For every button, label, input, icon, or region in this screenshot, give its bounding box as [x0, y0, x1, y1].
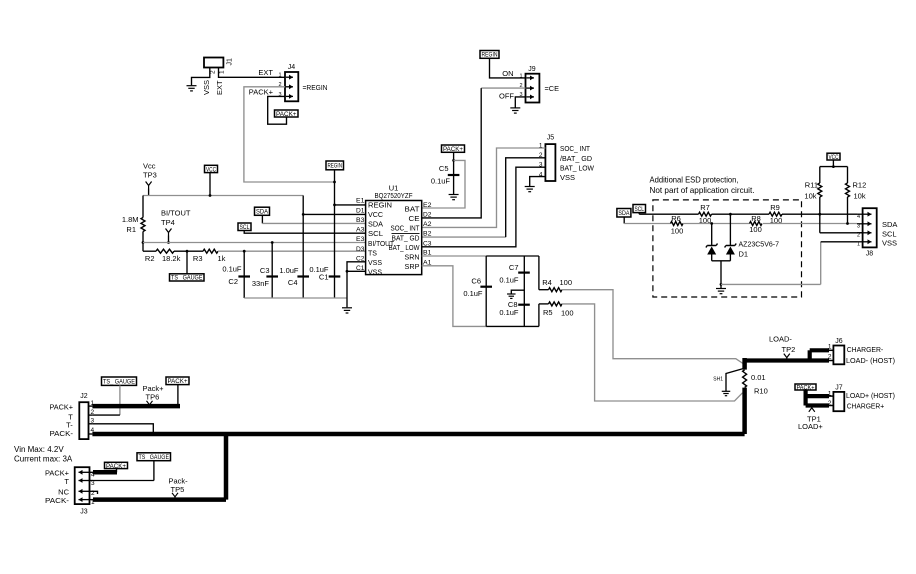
label LOAD- (HOST) at J6: [846, 356, 895, 365]
wire REGIN stem to E1 and C1: [333, 170, 336, 298]
svg-text:SOC_ INT: SOC_ INT: [391, 224, 420, 233]
wire J2 pin1 thick: [92, 404, 180, 409]
svg-text:OFF: OFF: [499, 92, 514, 101]
label PACK- at J3: [45, 496, 70, 505]
svg-text:18.2k: 18.2k: [162, 254, 181, 263]
resistor R1: [122, 196, 145, 252]
svg-text:A2: A2: [423, 221, 432, 228]
svg-text:100: 100: [560, 278, 573, 287]
svg-text:0.01: 0.01: [751, 373, 766, 382]
svg-text:1.0uF: 1.0uF: [279, 266, 299, 275]
resistor R3: [193, 249, 226, 263]
svg-text:VSS: VSS: [882, 238, 897, 247]
svg-text:PACK+: PACK+: [249, 87, 274, 96]
net label TS_GAUGE at J3: [137, 453, 171, 461]
resistor R12: [846, 167, 867, 224]
net label REGIN at J9: [480, 51, 499, 59]
svg-text:1.8M: 1.8M: [122, 215, 139, 224]
svg-text:A3: A3: [356, 226, 365, 233]
svg-text:D1: D1: [356, 207, 365, 214]
wire PACK+ to C5: [452, 152, 455, 194]
wire VCC rail: [143, 195, 303, 197]
resistor R5: [539, 302, 574, 317]
svg-text:LOAD+: LOAD+: [798, 422, 823, 431]
svg-text:0.1uF: 0.1uF: [499, 308, 519, 317]
wire LOAD- thick: [745, 350, 834, 360]
wire J5 pin2 BAT_GD: [422, 158, 546, 237]
wire VSS to J8 pin1: [721, 242, 857, 285]
svg-text:2: 2: [857, 233, 860, 239]
ground at C7/C8: [507, 294, 516, 298]
svg-text:SCL: SCL: [635, 206, 645, 213]
svg-text:BI/TOUT: BI/TOUT: [161, 209, 191, 218]
label CHARGER- at J6: [847, 345, 884, 354]
resistor R6: [671, 214, 684, 235]
svg-text:0.1uF: 0.1uF: [431, 177, 451, 186]
svg-text:C6: C6: [471, 276, 481, 285]
wire TS_GAUGE stem at J3: [153, 461, 155, 481]
svg-text:LOAD- (HOST): LOAD- (HOST): [846, 356, 895, 365]
wire R11 to J8 pin2: [820, 232, 863, 234]
diode D1b (zener): [725, 214, 737, 261]
resistor R11: [804, 167, 821, 233]
svg-text:TP3: TP3: [143, 171, 157, 180]
svg-text:1: 1: [278, 73, 281, 79]
op-amp U1 BQ27520YZF fuel gauge: [356, 183, 432, 276]
svg-text:PACK-: PACK-: [45, 496, 70, 505]
svg-text:1: 1: [857, 242, 860, 248]
net label REGIN near U1: [326, 161, 344, 170]
wire J3 pin2 stub: [93, 491, 98, 494]
svg-text:EXT: EXT: [258, 68, 273, 77]
svg-text:VSS: VSS: [202, 80, 211, 95]
svg-text:SCL: SCL: [368, 229, 383, 238]
svg-text:VCC: VCC: [206, 166, 216, 173]
svg-text:C1: C1: [319, 273, 329, 282]
svg-text:PACK+: PACK+: [168, 378, 188, 385]
wire J2 pin4 thick PACK-: [92, 432, 744, 437]
wire TP3 to VCC rail: [148, 189, 150, 196]
svg-text:1: 1: [828, 390, 832, 397]
label PACK+ at J3: [45, 468, 70, 477]
label CHARGER+ at J7: [847, 401, 885, 410]
label SCL at J8: [882, 229, 897, 238]
svg-text:D2: D2: [423, 211, 432, 218]
wire J2 pin2: [92, 414, 120, 416]
svg-text:J3: J3: [80, 509, 88, 516]
capacitor C4: [279, 266, 309, 287]
svg-text:LOAD+ (HOST): LOAD+ (HOST): [846, 391, 895, 400]
svg-text:C3: C3: [423, 240, 432, 247]
ground at J9: [510, 108, 520, 113]
svg-text:/BAT_ GD: /BAT_ GD: [560, 154, 593, 163]
capacitor C6: [463, 276, 492, 298]
svg-text:TP4: TP4: [161, 218, 175, 227]
wire PACK+ stem at J3: [116, 469, 118, 473]
ground at C5: [449, 195, 459, 200]
svg-text:100: 100: [749, 225, 762, 234]
svg-text:Pack-: Pack-: [169, 476, 189, 485]
label VSS (rotated): [202, 80, 211, 95]
wire J7 thick wires: [806, 390, 834, 406]
svg-text:SCL: SCL: [882, 229, 897, 238]
svg-text:R4: R4: [542, 278, 552, 287]
resistor R9: [769, 203, 782, 225]
label BAT_LOW at J5: [560, 164, 595, 173]
svg-text:C7: C7: [509, 263, 519, 272]
label EXT (rotated): [215, 80, 224, 95]
svg-text:REGIN: REGIN: [368, 201, 392, 210]
wire VCC rail at J8: [820, 166, 848, 168]
net label SDA at ESD: [617, 209, 631, 218]
net label PACK+ below J4: [275, 110, 299, 118]
wire J1 pin2 to ground: [192, 68, 210, 86]
ground below U1: [342, 298, 352, 313]
connector J8: [857, 208, 877, 257]
wire bottom VSS rail: [244, 297, 347, 299]
wire filter box top: [486, 255, 539, 257]
svg-text:SDA: SDA: [882, 220, 897, 229]
wire SCL stem at ESD: [638, 213, 640, 215]
wire SDA stem at ESD: [623, 217, 625, 224]
label =CE: [545, 84, 560, 93]
wire PACK+ stem at J2: [177, 385, 179, 407]
net label TS_GAUGE at J2: [102, 377, 137, 385]
svg-text:E1: E1: [356, 198, 365, 205]
svg-text:VCC: VCC: [368, 210, 383, 219]
wire VCC label stem: [209, 173, 212, 197]
svg-text:0.1uF: 0.1uF: [499, 275, 519, 284]
svg-text:J4: J4: [288, 64, 296, 71]
net label VCC at J8: [827, 153, 840, 161]
label VSS at J5: [560, 173, 575, 182]
label /BAT_GD at J5: [560, 154, 593, 163]
wire TP4 stem: [167, 236, 170, 244]
svg-text:TP6: TP6: [146, 393, 160, 402]
wire BI/TOUT rail: [143, 242, 366, 244]
wire SCL mid: [712, 213, 770, 216]
svg-text:E3: E3: [356, 236, 365, 243]
label D1 AZ23C5V6-7: [739, 239, 780, 258]
wire J9 pin2 CE: [422, 88, 526, 218]
label OFF: [499, 92, 514, 101]
wire D1 stub: [303, 213, 365, 215]
svg-text:PACK+: PACK+: [50, 403, 74, 412]
wire J3 pin4 thick: [93, 470, 117, 475]
svg-text:33nF: 33nF: [252, 279, 270, 288]
svg-text:2: 2: [210, 70, 217, 74]
wire filter box right: [538, 256, 540, 326]
wire PACK- vertical thick: [224, 434, 229, 500]
svg-text:REGIN: REGIN: [328, 163, 343, 170]
svg-text:BAT_ LOW: BAT_ LOW: [560, 164, 595, 173]
resistor R10 shunt: [743, 358, 768, 434]
wire R4 to shunt top: [562, 290, 743, 364]
svg-text:VSS: VSS: [560, 173, 575, 182]
svg-text:PACK+: PACK+: [276, 111, 297, 118]
wire REGIN to J9 pin1: [490, 58, 526, 78]
svg-text:BAT: BAT: [405, 205, 421, 214]
svg-text:Vcc: Vcc: [143, 162, 156, 171]
net label SCL near U1: [238, 223, 251, 231]
svg-text:VSS: VSS: [368, 268, 382, 277]
svg-text:100: 100: [561, 308, 574, 317]
wire SCL to J8 pin4: [782, 213, 857, 216]
wire TS_GAUGE stem: [186, 251, 188, 274]
wire C7C8 stem: [523, 256, 525, 326]
wire SDA line left: [624, 223, 670, 225]
resistor R8: [749, 214, 762, 234]
svg-text:1: 1: [519, 73, 522, 79]
svg-text:SRP: SRP: [405, 262, 420, 271]
svg-text:Vin Max: 4.2V: Vin Max: 4.2V: [14, 445, 64, 454]
svg-text:R6: R6: [671, 214, 681, 223]
note Vin Max: [14, 445, 73, 464]
svg-text:SDA: SDA: [618, 210, 630, 217]
ground at J5: [525, 187, 535, 192]
svg-text:Additional ESD protection,: Additional ESD protection,: [650, 175, 739, 185]
resistor R4: [539, 278, 572, 292]
svg-text:0.1uF: 0.1uF: [222, 264, 242, 273]
wire J1 pin1 to J4 pin1 (EXT): [219, 68, 286, 78]
connector J5: [539, 135, 556, 182]
wire J5 pin3 BAT_LOW: [422, 167, 546, 247]
capacitor C1: [309, 265, 340, 282]
capacitor C8: [499, 300, 529, 317]
svg-text:SOC_ INT: SOC_ INT: [560, 144, 590, 153]
label SH1: [713, 376, 723, 382]
svg-text:R1: R1: [126, 225, 136, 234]
wire J2 pin3: [92, 424, 153, 432]
net label TS_GAUGE: [170, 274, 205, 282]
resistor R2: [143, 249, 181, 263]
wire R2 to R3: [174, 250, 203, 253]
svg-text:1k: 1k: [218, 254, 226, 263]
net label PACK+ at J7: [795, 384, 816, 391]
connector J2: [79, 393, 94, 439]
ground at D1: [716, 289, 726, 294]
svg-text:=CE: =CE: [545, 84, 560, 93]
svg-text:1: 1: [828, 344, 832, 351]
svg-text:2: 2: [828, 353, 832, 360]
svg-text:SDA: SDA: [256, 209, 269, 216]
svg-text:T: T: [64, 477, 69, 486]
svg-text:TS: TS: [368, 249, 377, 258]
label LOAD+ (HOST) at J7: [846, 391, 895, 400]
svg-text:SRN: SRN: [405, 252, 420, 261]
wire filter box bottom: [486, 325, 539, 327]
wire C2 stem: [243, 250, 246, 298]
svg-text:10k: 10k: [854, 192, 866, 201]
wire J5 pin1 SOC_INT: [422, 148, 546, 227]
svg-text:4: 4: [857, 214, 860, 220]
svg-text:R7: R7: [700, 203, 710, 212]
wire SCL line left: [639, 213, 698, 215]
svg-text:J7: J7: [835, 385, 843, 392]
net label SDA near U1: [255, 207, 270, 215]
svg-text:BAT_ GD: BAT_ GD: [392, 233, 420, 242]
label VSS at J8: [882, 238, 897, 247]
svg-text:C1: C1: [356, 265, 365, 272]
label =REGIN at J4: [303, 83, 328, 92]
net label PACK+ at J3: [105, 462, 128, 469]
wire TS rail: [218, 250, 366, 252]
wire SRN: [422, 255, 487, 257]
label T- at J2: [66, 421, 73, 430]
connector J3: [75, 467, 95, 515]
wire J3 pin3: [93, 480, 154, 482]
svg-text:C2: C2: [228, 277, 238, 286]
connector J4: [278, 64, 298, 102]
svg-text:B3: B3: [356, 217, 365, 224]
svg-text:1: 1: [219, 70, 226, 74]
label SDA at J8: [882, 220, 897, 229]
wire filter box left: [485, 256, 487, 326]
svg-text:Current max: 3A: Current max: 3A: [14, 455, 73, 464]
svg-text:REGIN: REGIN: [482, 52, 498, 59]
wire SDA to U1: [262, 215, 365, 223]
svg-text:BAT_ LOW: BAT_ LOW: [389, 243, 420, 252]
svg-text:0.1uF: 0.1uF: [463, 289, 483, 298]
svg-text:TS_ GAUGE: TS_ GAUGE: [103, 379, 135, 385]
svg-text:SDA: SDA: [368, 220, 383, 229]
label T at J3: [64, 477, 69, 486]
testpoint TP6: [143, 384, 165, 408]
wire BAT to PACK+ node: [422, 160, 465, 208]
capacitor C7: [499, 263, 529, 284]
svg-text:D1: D1: [739, 250, 749, 259]
svg-text:LOAD-: LOAD-: [769, 335, 792, 344]
label ON: [502, 69, 513, 78]
svg-text:=REGIN: =REGIN: [303, 83, 328, 92]
testpoint TP1: [798, 405, 823, 431]
wire VCC vertical: [302, 196, 305, 299]
svg-text:J2: J2: [80, 393, 88, 400]
label LOAD- TP2: [769, 335, 795, 361]
testpoint TP3: [143, 162, 157, 189]
svg-text:D3: D3: [356, 246, 365, 253]
svg-text:PACK-: PACK-: [50, 429, 74, 438]
svg-text:100: 100: [671, 226, 684, 235]
ground at J1: [187, 86, 197, 91]
wire C3 stem: [271, 241, 274, 298]
wire diode common: [712, 261, 731, 288]
testpoint TP4: [161, 209, 191, 236]
diode D1a (zener): [706, 224, 718, 261]
net label VCC: [205, 165, 218, 173]
svg-text:C4: C4: [288, 278, 298, 287]
note ESD text: [650, 175, 755, 196]
svg-text:10k: 10k: [804, 192, 816, 201]
svg-text:J1: J1: [227, 58, 234, 66]
svg-text:CHARGER-: CHARGER-: [847, 345, 884, 354]
svg-text:R3: R3: [193, 254, 203, 263]
label EXT at J4: [258, 68, 273, 77]
wire J4 pin2 REGIN: [244, 87, 335, 182]
svg-text:R11: R11: [805, 180, 818, 189]
svg-text:SH1: SH1: [713, 376, 723, 382]
svg-text:AZ23C5V6-7: AZ23C5V6-7: [739, 239, 780, 248]
label NC at J3: [58, 487, 69, 496]
net label PACK+ at J2: [166, 377, 189, 385]
connector J1: [204, 58, 234, 75]
wire SDA to J8 pin3: [763, 222, 857, 225]
wire U1 VSS pins: [346, 262, 366, 298]
svg-text:R12: R12: [853, 180, 867, 189]
svg-text:VCC: VCC: [829, 154, 839, 161]
svg-text:VSS: VSS: [368, 258, 382, 267]
svg-text:2: 2: [828, 400, 832, 407]
svg-text:TS_ GAUGE: TS_ GAUGE: [171, 276, 203, 282]
ground at SH1: [722, 391, 731, 395]
net label SCL at ESD: [633, 205, 646, 213]
svg-text:R9: R9: [770, 203, 780, 212]
svg-text:B2: B2: [423, 231, 432, 238]
ESD dashed box: [653, 200, 802, 297]
wire SRP: [422, 266, 487, 327]
wire C7 to ground stub: [511, 290, 524, 293]
net label PACK+ at C5: [442, 145, 465, 153]
label PACK- at J2: [50, 429, 74, 438]
svg-text:R2: R2: [145, 254, 155, 263]
svg-text:J8: J8: [866, 251, 874, 258]
resistor R7: [699, 203, 712, 225]
testpoint TP5: [169, 476, 189, 500]
svg-text:SCL: SCL: [240, 224, 250, 231]
wire J5 pin4 to ground: [530, 177, 546, 186]
wire R5 to shunt bottom: [562, 304, 743, 401]
svg-text:J5: J5: [547, 135, 555, 142]
svg-text:3: 3: [857, 224, 860, 230]
connector J9: [519, 66, 539, 103]
svg-text:C3: C3: [260, 266, 270, 275]
label PACK+ at J2: [50, 403, 74, 412]
wire SCL to U1: [244, 231, 365, 234]
svg-text:PACK+: PACK+: [443, 146, 463, 153]
capacitor C3: [252, 266, 278, 288]
svg-text:TP2: TP2: [782, 345, 796, 354]
capacitor C5: [431, 164, 460, 186]
wire VCC stem at J8: [832, 160, 835, 168]
svg-text:C5: C5: [439, 164, 449, 173]
svg-text:R5: R5: [543, 308, 553, 317]
wire J3 pin1 thick: [93, 497, 226, 502]
wire SDA mid: [683, 222, 750, 225]
svg-text:J6: J6: [835, 338, 843, 345]
label SOC_INT at J5: [560, 144, 590, 153]
svg-text:ON: ON: [502, 69, 513, 78]
connector J6: [828, 338, 844, 364]
svg-text:BQ27520YZF: BQ27520YZF: [375, 191, 413, 200]
svg-text:R8: R8: [751, 214, 761, 223]
svg-text:CE: CE: [409, 214, 420, 223]
svg-text:E2: E2: [423, 202, 432, 209]
capacitor C2: [222, 264, 250, 286]
svg-text:R10: R10: [754, 386, 768, 395]
wire J9 pin3 to ground: [515, 97, 525, 108]
label T at J2: [68, 412, 73, 421]
label PACK+ at J4 pin3: [249, 87, 274, 96]
svg-text:TS_ GAUGE: TS_ GAUGE: [139, 455, 170, 461]
svg-text:EXT: EXT: [215, 80, 224, 95]
connector J7: [828, 385, 844, 412]
svg-text:Not part of application circui: Not part of application circuit.: [650, 185, 755, 195]
wire E1 stub: [335, 204, 366, 206]
svg-text:CHARGER+: CHARGER+: [847, 401, 885, 410]
wire J4 pin3 to PACK+ label: [268, 96, 287, 124]
svg-text:C2: C2: [356, 255, 365, 262]
wire SH1 kelvin: [726, 369, 744, 392]
